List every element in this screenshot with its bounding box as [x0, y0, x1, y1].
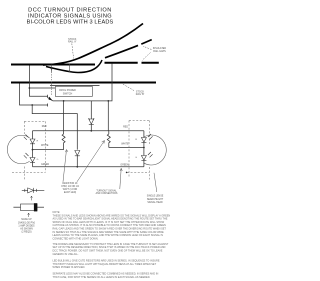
resistor R2 (right column) — [108, 131, 110, 134]
svg-text:TURNOUT SIGNAL: TURNOUT SIGNAL — [96, 189, 117, 192]
junction dot at right box bottom corner — [126, 172, 128, 174]
svg-text:CONNECTED WITH THE LIGHT DOWN.: CONNECTED WITH THE LIGHT DOWN. — [53, 237, 99, 240]
svg-text:WHITE: WHITE — [41, 145, 49, 147]
note paragraph 4 — [53, 273, 159, 280]
svg-text:SINGLE LENSE: SINGLE LENSE — [147, 196, 164, 198]
svg-text:WHITE: WHITE — [121, 144, 129, 146]
white wire left — [33, 149, 64, 151]
wire from feeder A to switch box — [29, 87, 55, 89]
stock rail A (top straight rail, with frog gap and insulated gap) — [11, 63, 159, 65]
svg-text:WATT (1 FOR: WATT (1 FOR — [63, 188, 78, 191]
turnout signal note text with leader — [96, 189, 118, 195]
right signal target circle — [144, 135, 166, 165]
note paragraph 1 — [53, 214, 171, 240]
svg-text:SEARCHLIGHT: SEARCHLIGHT — [147, 198, 164, 201]
svg-text:SWITCH: SWITCH — [63, 92, 73, 95]
svg-text:AS SHOWN: AS SHOWN — [20, 228, 33, 231]
single lense searchlight label with leader — [147, 196, 164, 204]
stock rail B (bottom straight rail) — [11, 82, 156, 84]
label STOCK RAIL 'B' with dashed leader — [136, 91, 145, 97]
switch common wire — [53, 100, 108, 102]
left signal target circle — [7, 135, 29, 164]
left lead labels RED WHITE GREEN — [41, 126, 50, 166]
svg-text:BI-COLOR LEDS WITH 3 LEADS: BI-COLOR LEDS WITH 3 LEADS — [27, 19, 114, 25]
guard rail — [50, 84, 100, 86]
label STOCK RAIL 'A' with dashed leader — [68, 38, 77, 44]
throw bar at point tips — [52, 64, 70, 73]
title — [27, 7, 114, 25]
left LED R (bi-color red) — [24, 135, 35, 144]
svg-text:RED: RED — [42, 126, 47, 128]
left LED G (bi-color green) — [24, 153, 35, 162]
legend diode package (1N4001 with cathode band) — [13, 203, 44, 211]
drop from common wire to red bus — [107, 101, 109, 131]
svg-text:WHEN POWER IS APPLIED.: WHEN POWER IS APPLIED. — [53, 266, 86, 269]
svg-text:RESISTOR 1K: RESISTOR 1K — [62, 183, 78, 185]
svg-text:SIGNAL HEAD: SIGNAL HEAD — [147, 201, 163, 204]
diode D1 (vertical, common wire to red bus) — [90, 101, 92, 131]
diverging rail C2 (lower, with frog gap and insulated gap) — [46, 60, 102, 73]
switch contacts and lever — [48, 95, 53, 107]
svg-text:GREEN: GREEN — [41, 164, 50, 166]
svg-text:GENERIC IN USE ALL.: GENERIC IN USE ALL. — [53, 253, 79, 256]
right LED R — [141, 134, 152, 142]
svg-text:OHM, 1/4 OR 1/2: OHM, 1/4 OR 1/2 — [61, 186, 79, 188]
svg-text:RED: RED — [123, 127, 128, 129]
feeder from stock rail B (bottom rail) down to contact B — [20, 84, 48, 106]
svg-text:G: G — [37, 159, 39, 161]
svg-text:RAIL GAPS: RAIL GAPS — [153, 50, 166, 53]
diverging rail C1 (upper) — [43, 24, 143, 66]
right LED string wire — [143, 131, 145, 167]
resistor R1 (left column) — [63, 101, 65, 134]
svg-text:GREEN: GREEN — [120, 165, 129, 167]
frog feeder from top rail right section down to common wire — [108, 64, 112, 101]
right lead labels RED WHITE GREEN — [120, 127, 129, 167]
svg-text:MAKE UP: MAKE UP — [21, 218, 32, 221]
svg-text:AND CONNECTORS: AND CONNECTORS — [96, 192, 118, 195]
green bus — [33, 166, 144, 168]
left signal head dashed box — [12, 121, 45, 179]
legend text block — [18, 218, 35, 234]
svg-text:THAT CASE, FOR SPOT THE SERIES: THAT CASE, FOR SPOT THE SERIES OF ALL LE… — [53, 276, 151, 279]
label INSULATED RAIL GAPS with two dashed leaders — [153, 47, 167, 53]
svg-text:(2 REQD): (2 REQD) — [21, 232, 31, 234]
note paragraph 3 — [53, 259, 160, 269]
legend LED symbol (horizontal diode) — [22, 188, 45, 193]
dashed mechanical linkage from throw bar to switch with arrowhead — [51, 70, 53, 96]
right LED G — [141, 152, 152, 160]
frog power switch box — [55, 87, 92, 97]
svg-text:G: G — [135, 157, 137, 159]
resistor note text — [61, 183, 79, 194]
left LED string wire — [32, 131, 34, 167]
feeder from stock rail A (top rail) down to contact A — [29, 66, 47, 97]
white branch wire from node to diode D2 column — [32, 105, 77, 150]
arrow from resistor note to R1 — [63, 150, 68, 182]
legend arrow between symbol and package — [31, 196, 33, 200]
svg-text:RAIL 'A': RAIL 'A' — [68, 40, 77, 43]
note paragraph 2 — [53, 243, 169, 256]
svg-text:RAIL 'B': RAIL 'B' — [136, 93, 145, 96]
svg-text:EACH LED): EACH LED) — [64, 191, 76, 194]
svg-text:1 AMP DIODES: 1 AMP DIODES — [18, 225, 35, 228]
right signal head dashed box — [127, 121, 149, 180]
arrow from resistor note to R2 — [77, 141, 105, 182]
white wire right — [109, 147, 144, 149]
diode D2 (vertical, white branch to green bus) — [75, 151, 80, 156]
svg-text:1N4001 (50 PIV): 1N4001 (50 PIV) — [18, 222, 35, 224]
red bus — [33, 130, 144, 132]
